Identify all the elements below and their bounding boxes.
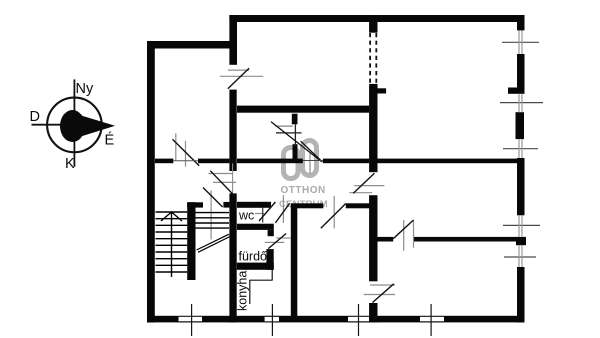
door D12 bathroom	[265, 234, 291, 249]
interior wall H11 segment 2	[414, 237, 518, 242]
right exterior wall segment 2	[517, 54, 525, 94]
compass needle	[60, 110, 115, 142]
compass horizontal axis	[32, 124, 104, 126]
stairwell wall V4	[187, 202, 195, 280]
bottom exterior wall segment 3	[279, 316, 348, 323]
interior wall H8 segment 2	[346, 203, 372, 208]
bottom wall opening ticks	[192, 304, 432, 336]
threshold line across hall opening	[303, 160, 323, 162]
wall stub on right wall	[508, 88, 517, 94]
door D4 in H6	[203, 188, 223, 240]
stairs centerline	[171, 212, 173, 277]
right exterior wall segment 5	[517, 267, 525, 323]
right exterior wall pier between windows	[516, 237, 526, 245]
svg-text:É: É	[105, 132, 115, 149]
wc top wall	[237, 202, 271, 208]
interior wall H3	[237, 106, 369, 113]
stairs left flight treads	[156, 212, 188, 272]
svg-text:fürdő: fürdő	[239, 250, 268, 264]
bottom wall opening edge lines	[179, 316, 445, 322]
right exterior wall segment 4	[517, 158, 525, 215]
wc bottom wall	[237, 224, 274, 230]
door D10 in V2 lower	[364, 284, 395, 303]
svg-text:D: D	[30, 109, 40, 125]
door D8 in H8	[321, 196, 346, 229]
door D3 in V1 lower	[208, 163, 236, 195]
interior wall H6 segment 1	[187, 202, 203, 207]
stairs break line	[197, 234, 231, 252]
interior wall V1 lower	[229, 193, 236, 322]
wall V5 stub upper	[292, 114, 298, 125]
window glass lines on right wall	[519, 30, 522, 267]
interior wall H5 segment 3a	[237, 159, 303, 164]
interior wall H5 segment 3b	[323, 159, 369, 164]
door D6 hall	[275, 195, 289, 223]
watermark OC logo C	[303, 141, 317, 176]
interior wall V1 upper	[229, 15, 237, 65]
interior wall V1 middle	[229, 90, 236, 171]
top-left exterior wall	[147, 41, 237, 49]
door D2 in H5 left	[173, 133, 200, 166]
right exterior wall segment 3	[516, 112, 525, 139]
bottom exterior wall segment 1	[147, 316, 179, 323]
stairs up arrow	[161, 212, 182, 221]
compass circle	[47, 98, 102, 153]
svg-text:Ny: Ny	[76, 81, 94, 97]
bottom exterior wall segment 5	[444, 316, 525, 323]
right exterior wall segment 1	[517, 15, 525, 30]
door D7 in V5 and hall opening	[271, 122, 322, 174]
interior wall H11 segment 1	[378, 237, 394, 242]
wall V5 lower	[291, 205, 298, 316]
stairs upper flight treads	[196, 213, 230, 229]
compass vertical axis	[73, 79, 75, 166]
door D1 in V1 upper	[220, 68, 263, 88]
interior wall H5 segment 4	[378, 159, 518, 164]
door D9 in V2 middle	[349, 173, 384, 193]
watermark OC logo O	[284, 148, 299, 179]
svg-text:K: K	[65, 156, 75, 172]
interior wall H8 segment 1	[291, 203, 324, 208]
dashed removed wall below V2 stub	[370, 33, 376, 84]
door D11 in H11	[393, 220, 413, 251]
bottom exterior wall segment 2	[202, 316, 265, 323]
interior wall V2 middle	[369, 195, 377, 281]
svg-text:konyha: konyha	[236, 271, 250, 311]
top exterior wall	[229, 15, 524, 22]
kitchen boundary thin lines	[249, 270, 272, 304]
interior wall V2 right stub	[378, 88, 387, 93]
interior wall V2 upper	[369, 84, 377, 172]
svg-text:wc: wc	[238, 209, 254, 223]
interior wall H5 segment 2	[198, 159, 229, 164]
wall piece below wc wall	[268, 230, 274, 236]
wall V5 stub mid	[293, 144, 298, 159]
bottom exterior wall segment 4	[369, 316, 420, 323]
window sill lines on right wall	[500, 42, 543, 257]
left exterior wall	[147, 41, 155, 323]
bathroom bottom wall	[237, 263, 274, 270]
interior wall V2 top stub	[369, 15, 377, 33]
bathroom right wall	[266, 249, 273, 270]
interior wall V2 lower	[369, 303, 377, 322]
interior wall H6 segment 2	[223, 202, 229, 208]
door D5 wc	[255, 202, 275, 223]
interior wall H5 segment 1	[155, 159, 173, 164]
svg-text:OTTHON: OTTHON	[281, 185, 326, 196]
